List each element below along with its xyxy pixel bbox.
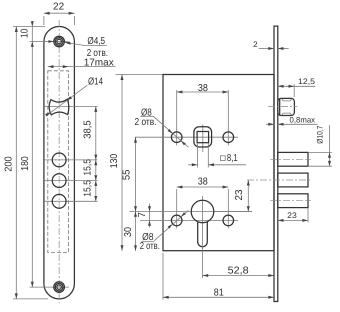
pin row line 1 [44,159,98,161]
dimension 22 [43,16,45,25]
follower centerline [202,125,204,153]
top hole left D8 [176,129,178,146]
top holes row line [135,136,238,138]
svg-text:8,1: 8,1 [227,153,238,164]
dimension 38 top [176,90,178,130]
latch row line [44,105,98,107]
dimension square 8.1 [197,143,199,168]
pin2 centerline [247,179,311,181]
bottom hole left D8 [176,213,178,229]
svg-text:130: 130 [109,153,120,168]
pin1 centerline [270,158,311,160]
dimension 52.8 [202,248,204,278]
svg-text:38: 38 [198,177,208,188]
svg-text:15,5: 15,5 [82,159,93,176]
dimension 81 [162,253,164,300]
bolt pin 3 side view [278,194,308,208]
bottom screw hole [54,282,65,293]
pin row line 3 [44,200,98,202]
bottom holes row line [140,219,238,221]
svg-text:7: 7 [137,212,148,218]
svg-text:200: 200 [4,156,15,172]
svg-text:10: 10 [19,28,30,38]
dimension 0.8max [266,123,274,125]
bolt pin 2 side view [278,173,308,187]
dimension 38.5 / 15.5 / 15.5 [95,106,97,201]
svg-text:23: 23 [287,211,297,220]
svg-text:Ø10,7: Ø10,7 [316,125,325,144]
latch centerline [268,106,297,108]
svg-text:81: 81 [214,288,224,299]
dimension D10.7 [309,151,332,153]
top screw crosshair [30,41,69,43]
svg-text:180: 180 [20,156,31,171]
latch bolt side view [278,98,295,115]
svg-text:2 отв.: 2 отв. [140,241,160,252]
hidden slot rectangle 17max [48,71,69,253]
bottom hole right D8 [227,213,229,229]
dimension 130 [116,74,163,76]
svg-text:38,5: 38,5 [82,120,93,139]
bottom screw crosshair [30,286,70,288]
euro cylinder circle [191,200,214,223]
svg-text:55: 55 [121,169,132,180]
dimension 2 [259,48,274,50]
cylinder row line [130,211,253,213]
body outline [163,75,274,251]
latch bone cutout [49,99,69,115]
dimension 10 and 180 [13,26,45,28]
svg-text:30: 30 [123,227,134,237]
dimension 7 [149,204,151,228]
spindle follower [194,127,212,147]
svg-text:15,5: 15,5 [82,180,93,197]
svg-text:22: 22 [53,1,65,12]
svg-text:2 отв.: 2 отв. [135,117,157,128]
cylinder centerline [202,196,204,249]
dimension 38 bottom [176,189,178,213]
dimension 55 and 30 [135,137,137,251]
plate outline [44,27,75,299]
spindle square 8.1 [197,132,209,143]
bolt pin hole 3 [52,194,66,208]
top hole right D8 [227,129,229,146]
plate centerline [58,20,60,303]
svg-text:2: 2 [253,40,258,49]
svg-text:52,8: 52,8 [228,266,249,277]
bolt pin hole 2 [52,174,66,188]
dimension 23 (cylinder to pin row) [215,211,252,213]
euro cylinder stem [198,218,208,247]
dimension 12.5 [293,84,295,97]
svg-text:Ø14: Ø14 [88,77,103,88]
faceplate side view [274,26,278,301]
dimension 23 (pin length) [307,209,309,223]
pin3 centerline [270,200,311,202]
svg-text:12,5: 12,5 [298,77,316,86]
svg-text:23: 23 [234,189,245,200]
svg-text:38: 38 [198,83,208,94]
dimension 200 [15,27,17,299]
bolt pin hole 1 [52,153,66,167]
bolt pin 1 side view [278,152,308,166]
pin row line 2 [44,180,98,182]
svg-text:0,8max: 0,8max [290,116,316,125]
top screw hole [54,36,65,47]
